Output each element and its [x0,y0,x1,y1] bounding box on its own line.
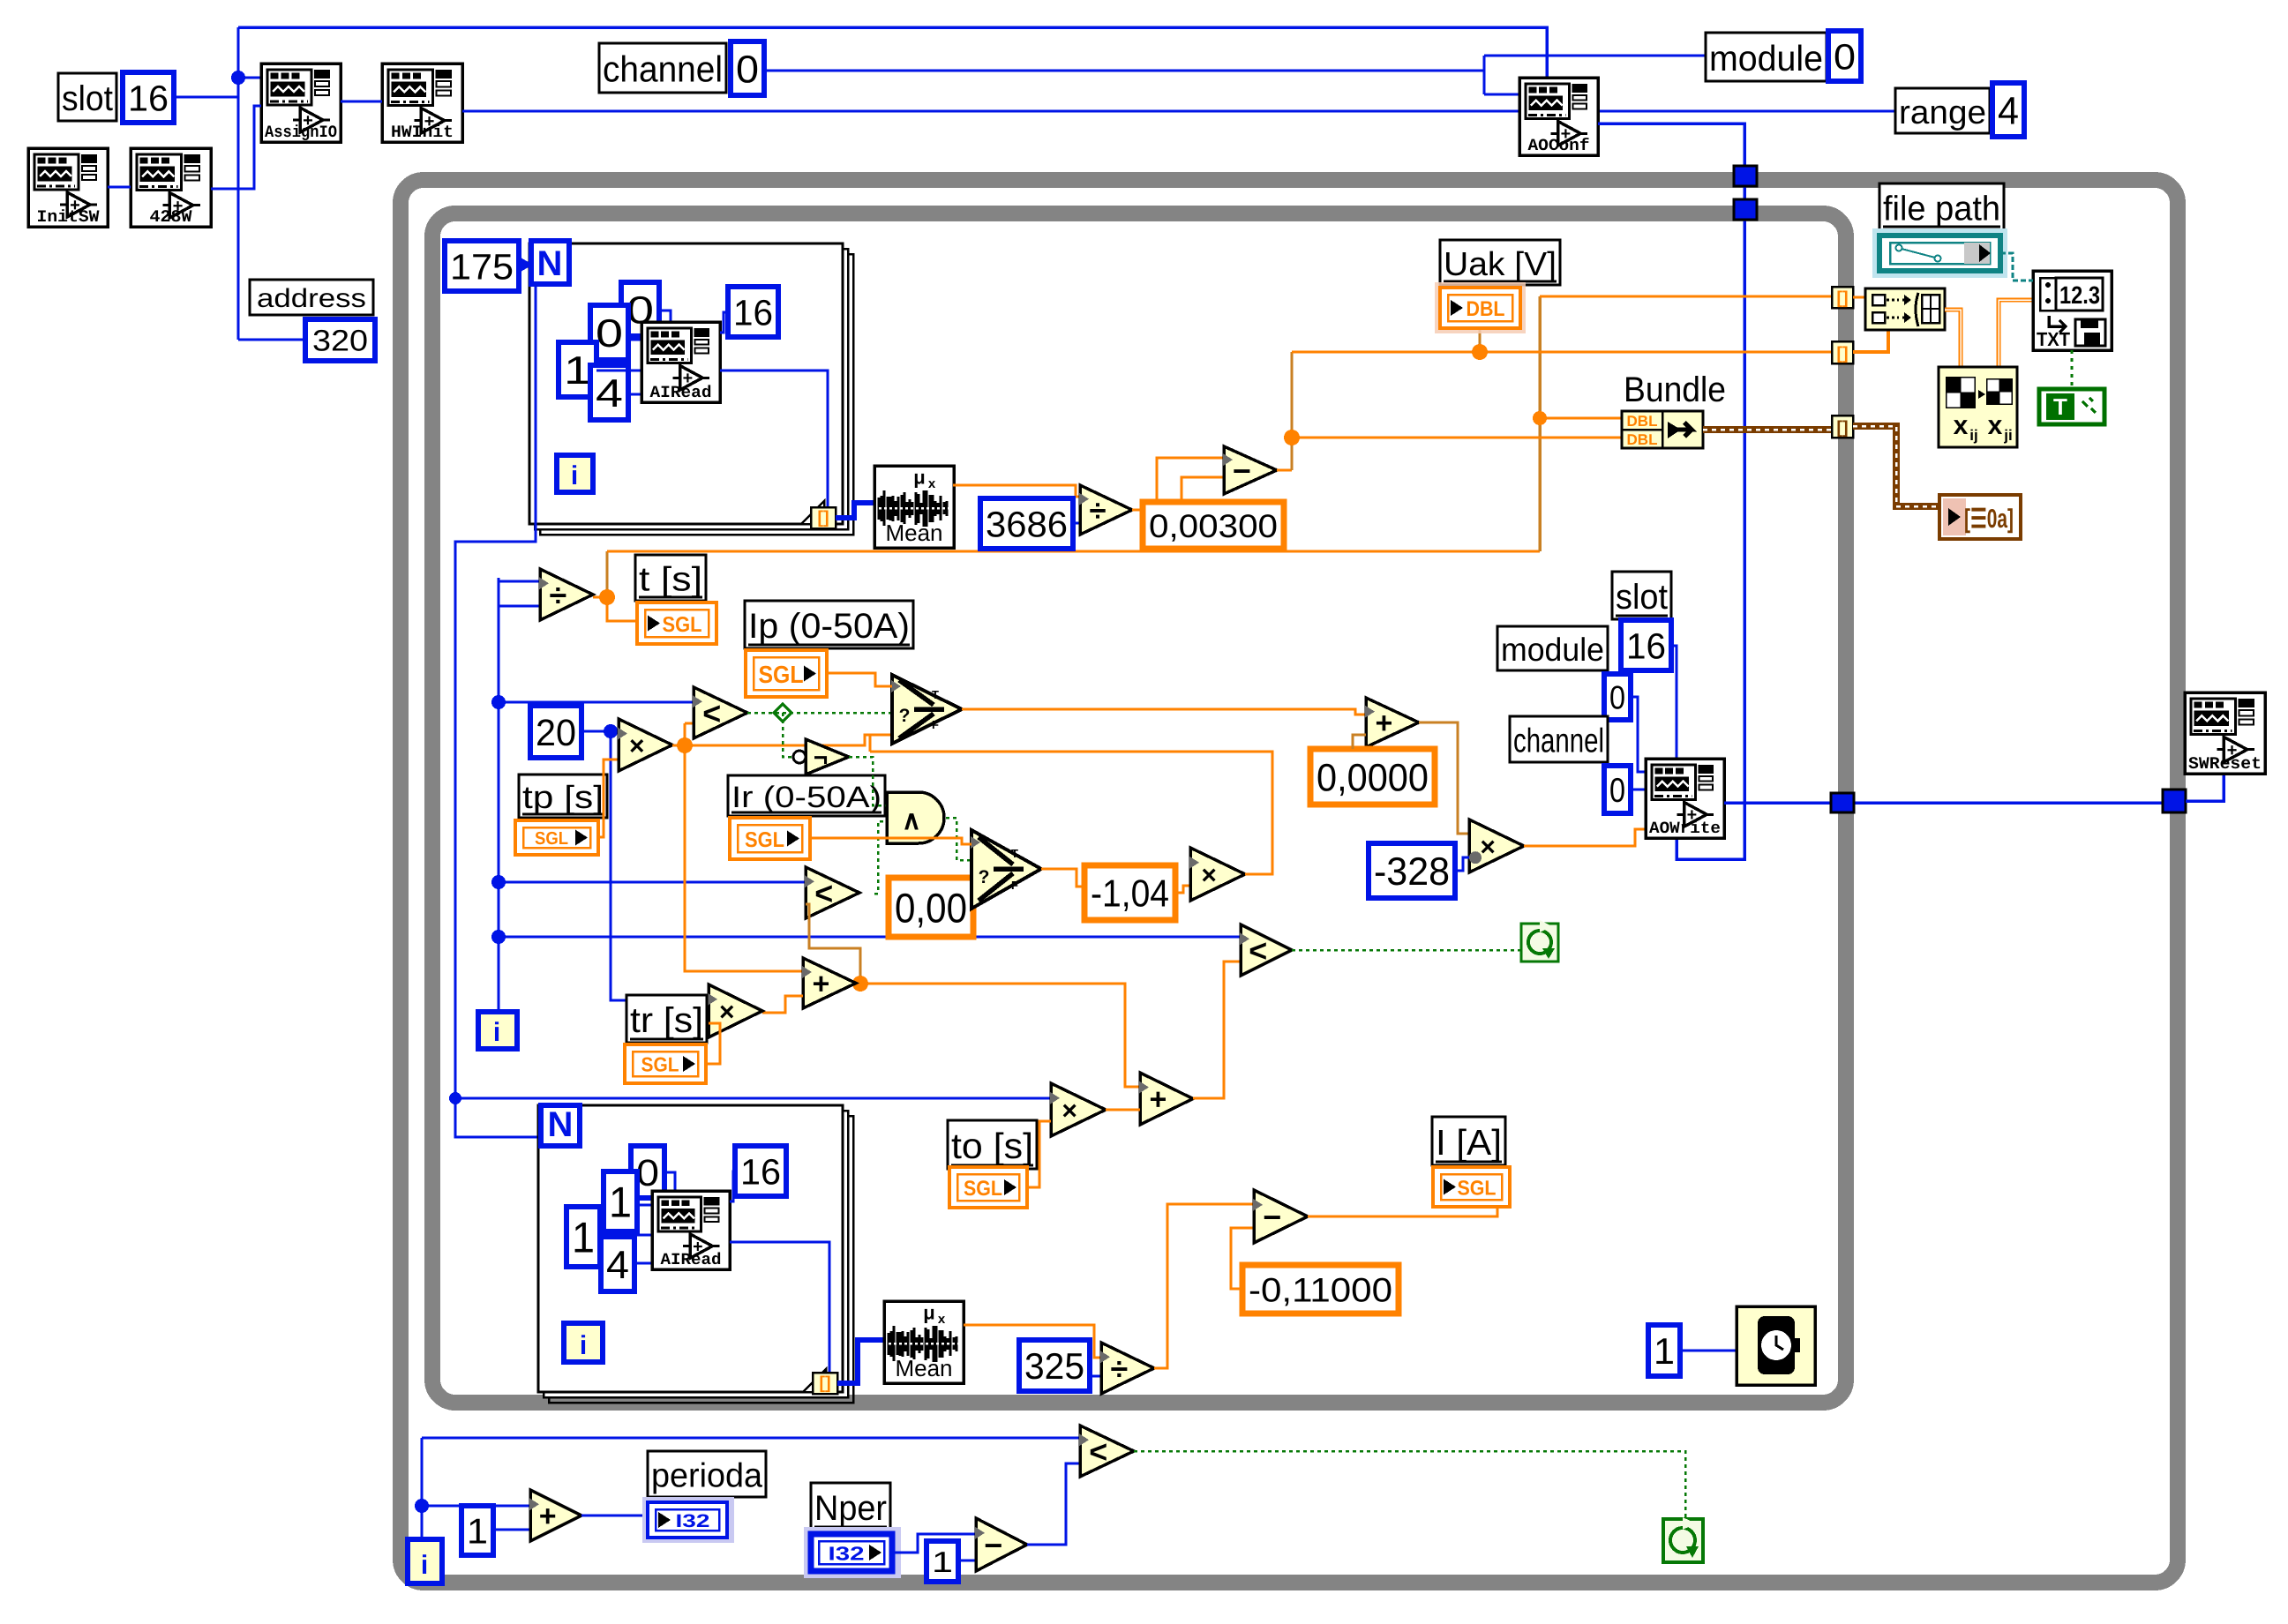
svg-text:N: N [548,1105,574,1144]
wire multTo to add2 [1106,1109,1140,1111]
wire 1 to sub5 [958,1560,976,1562]
constant 0 b loop1 [590,305,628,360]
for loop 2 corner fold [803,1369,826,1392]
label channel 2 [1510,716,1608,762]
wire build to transpose [1945,310,1961,367]
label channel top [599,43,726,93]
svg-text:325: 325 [1024,1345,1084,1387]
svg-text:SGL: SGL [745,828,784,852]
wire AssignIO to HWInit [341,101,382,103]
less than 3 [1241,924,1292,976]
svg-text:<: < [814,875,833,911]
constant 1 loop1 [559,342,596,397]
iteration terminal i inner loop [478,1012,517,1049]
wire AIRead2 to 16 [730,1171,735,1201]
svg-text:∧: ∧ [902,806,921,835]
multiply B [1469,819,1524,872]
label address [250,280,373,315]
svg-text:TXT: TXT [2037,328,2071,350]
junction i wire 2 [491,875,506,889]
svg-text:−: − [984,1527,1002,1563]
constant 0 channel2 [1604,766,1631,813]
wire 20 to multiply [581,730,619,733]
constant 3686 [980,498,1073,549]
svg-text:¬: ¬ [814,744,828,771]
svg-text:12.3: 12.3 [2059,281,2100,309]
for loop 1 frame [540,254,853,535]
wire add4 to perioda [581,1515,648,1517]
not gate [793,751,806,763]
constant T true [2039,389,2104,424]
for loop 1 corner fold [801,501,824,524]
wire save to T dotted [2071,350,2074,389]
junction mult20 dot [677,737,693,753]
svg-text:N: N [537,244,563,283]
svg-text:address: address [257,284,366,313]
svg-text:x: x [938,1312,946,1327]
bundle node [1622,411,1703,448]
junction lt1 diamond [774,704,791,722]
svg-text:320: 320 [312,325,368,358]
svg-text:[]: [] [1836,418,1848,438]
svg-text:Nper: Nper [814,1489,887,1528]
wire tunnel2 to build [1853,325,1888,352]
count terminal N loop2 [541,1105,580,1146]
wire loop2 to Mean2 [837,1340,884,1383]
constant 4 range [1992,83,2024,137]
svg-text:<: < [702,695,721,731]
wire t net [593,596,607,599]
terminal Ip SGL [746,650,827,697]
wire tunnel1 to build [1853,296,1865,299]
wire Ir to select2 [810,838,971,844]
svg-text:DBL: DBL [1627,431,1658,448]
wires consts to AIRead loop1 [659,311,671,323]
VI AOWrite [1646,759,1724,838]
constant 0 a loop1 [621,282,659,336]
multiply A [1190,848,1245,901]
junction N wire [449,1092,461,1104]
indicator 0,00300 [1143,502,1284,549]
multiply tr [709,984,762,1037]
svg-text:file path: file path [1883,189,2000,228]
subtract 5 [976,1518,1027,1571]
constant -328 [1369,843,1455,898]
wire AOConf down to AOWrite [1598,123,1744,859]
svg-text:×: × [719,998,735,1027]
svg-text:perioda: perioda [651,1457,763,1495]
svg-text:channel: channel [603,49,723,90]
tunnel orange 1 [1832,287,1853,308]
wire AOWrite out [1724,801,2163,805]
svg-text:module: module [1709,38,1823,79]
junction 20 dot [604,724,618,738]
wire transpose to save [1999,300,2033,367]
svg-text:to [s]: to [s] [951,1126,1033,1166]
label range [1895,88,1990,133]
transpose node [1939,367,2017,447]
count terminal N loop1 [531,241,569,284]
svg-text:I32: I32 [829,1542,865,1564]
wire multA out up [870,752,1272,874]
wire module0 to AOWrite [1631,697,1646,772]
label tp [519,775,607,818]
svg-text:4: 4 [1998,89,2019,132]
wire 175 to N [519,263,531,266]
svg-text:SGL: SGL [535,829,568,849]
wire multB to AOWrite [1524,829,1646,846]
label Uak [1440,240,1560,285]
label Ip [745,601,913,648]
junction i outer dot [415,1499,429,1513]
svg-text:tr [s]: tr [s] [630,1001,703,1040]
terminal tr SGL [625,1044,706,1083]
svg-text:F: F [1011,879,1018,892]
svg-text:T: T [2053,393,2067,420]
wire lt3 to continue dotted [1292,949,1521,952]
for loop 2 frame [549,1116,853,1403]
constant 0 loop2 [631,1146,664,1198]
wire to address 320 [238,339,305,341]
svg-text:4: 4 [606,1244,629,1287]
and gate [887,792,944,843]
wire 1 to wait [1680,1350,1737,1352]
wire AIRead out loop1 [720,370,828,507]
svg-text:×: × [629,731,645,760]
wire add1 to lt2 [806,904,860,984]
tunnel cluster [1832,415,1853,438]
wire lt2 to and [874,821,887,894]
wait ms node [1737,1306,1815,1385]
continue terminal inner [1521,924,1558,962]
wire top long to AOConf [238,27,1547,78]
svg-text:Mean: Mean [895,1355,952,1381]
svg-text:slot: slot [62,79,113,118]
terminal to SGL [949,1167,1027,1208]
wire -011 to sub2 [1231,1228,1254,1289]
VI AssignIO [261,64,341,142]
subtract 1 [1224,446,1277,494]
tunnel blue inner right [1831,793,1854,812]
label tr [626,995,707,1043]
svg-text:16: 16 [1626,625,1666,666]
svg-text:1: 1 [609,1179,632,1227]
terminal t s SGL [637,602,716,644]
svg-text:-1,04: -1,04 [1091,873,1169,916]
while loop outer frame [401,180,2178,1583]
wire 3686 to divide [1073,522,1080,525]
wire slot16 to AssignIO [174,96,238,99]
wire mult20 out [672,745,685,747]
constant 325 [1019,1340,1090,1391]
svg-text:F: F [932,718,939,731]
svg-text:SGL: SGL [641,1053,679,1076]
wire to SGL to multiply [1027,1121,1051,1187]
svg-text:slot: slot [1616,578,1668,617]
svg-text:I [A]: I [A] [1436,1122,1502,1163]
label Ir [728,775,885,816]
svg-text:1: 1 [467,1511,488,1552]
constant 1 wait [1648,1325,1680,1376]
svg-text:-0,11000: -0,11000 [1249,1271,1392,1309]
tunnel blue outer top [1734,166,1757,186]
multiply 20tp [619,719,672,771]
wire 16 to AOWrite [1671,646,1677,759]
wire 1 to add4 [493,1529,530,1531]
wire stubs to subtract1 [1157,458,1224,502]
wire channel0 to AOWrite [1631,789,1646,791]
svg-text:-328: -328 [1374,850,1450,894]
tunnel blue outer right [2163,790,2186,812]
iteration terminal i loop2 [564,1323,603,1362]
build array node [1865,288,1945,330]
terminal Ir SGL [730,818,810,859]
junction i wire 3 [491,930,506,944]
wire i outer net [421,1438,424,1539]
svg-text:μ: μ [923,1301,934,1323]
svg-text:÷: ÷ [550,577,567,613]
svg-text:module: module [1501,632,1604,668]
svg-text:1: 1 [564,349,591,393]
svg-text:ji: ji [2003,427,2012,444]
svg-text:x: x [928,476,936,491]
wire InitSW to 428W [108,186,131,189]
wire multTr to add1 [762,996,803,1013]
svg-text:[]: [] [817,508,829,528]
svg-text:0: 0 [736,48,759,91]
terminal perioda I32 [642,1497,734,1543]
terminal I A SGL [1433,1167,1510,1207]
VI AIRead loop1 [641,322,720,402]
label I A [1432,1117,1505,1165]
svg-text:×: × [1061,1096,1077,1126]
wire select2 out [1041,869,1084,887]
svg-text:3686: 3686 [986,504,1068,544]
svg-text:[]: [] [819,1373,830,1393]
svg-text:0: 0 [596,312,623,355]
wire sub5 to lt4 [1027,1463,1080,1545]
wire loop1 to Mean [836,503,874,518]
junction add1 dot [852,976,868,992]
svg-text:?: ? [899,706,911,726]
svg-text:<: < [1249,932,1267,969]
svg-text:0: 0 [1609,772,1625,810]
wire not to and [849,757,887,805]
wire Nper to sub5 [892,1534,976,1553]
tunnel autoindex loop1 [811,507,836,528]
svg-text:175: 175 [450,246,514,287]
svg-text:?: ? [979,867,990,887]
svg-text:Mean: Mean [885,520,942,546]
svg-text:SWReset: SWReset [2188,754,2262,774]
constant 0 channel top [731,41,764,95]
tunnel blue inner top [1734,199,1757,220]
svg-text:+: + [812,968,829,1001]
VI Mean 1 [874,466,954,548]
svg-text:16: 16 [733,292,773,333]
svg-text:−: − [1263,1199,1281,1235]
svg-text:I32: I32 [676,1511,710,1531]
wire 428W to AssignIO [211,106,261,189]
junction sub1 dot a [1284,430,1300,445]
label module 2 [1497,626,1608,670]
label module top [1706,33,1827,81]
wire i inner vertical [498,578,500,1012]
svg-text:AIRead: AIRead [661,1251,722,1269]
svg-text:0: 0 [1609,679,1625,716]
wire add2 to lt3 [1193,962,1241,1098]
wire Mean2 out [964,1325,1101,1358]
VI Mean 2 [884,1301,964,1383]
svg-text:+: + [1149,1083,1167,1117]
svg-text:×: × [1201,861,1217,890]
constant 1 Nper [926,1541,958,1582]
svg-text:HWInit: HWInit [391,123,454,142]
add 2 [1140,1073,1193,1125]
svg-text:i: i [571,461,578,490]
svg-text:×: × [1480,833,1496,862]
svg-text:DBL: DBL [1627,413,1658,430]
tunnel autoindex loop2 [813,1373,837,1394]
constant 1 perioda [461,1506,493,1555]
junction t dot [599,589,615,605]
VI SWReset [2185,692,2265,774]
label slot [58,73,116,121]
wire file path teal [2000,253,2033,281]
constant 0 module top [1828,31,1861,81]
wires consts to AIRead loop2 [664,1172,675,1191]
svg-text:16: 16 [740,1151,781,1192]
svg-text:Ir (0-50A): Ir (0-50A) [731,781,881,814]
wire Ip to select1 [827,673,892,686]
wire AIRead to 16 [720,312,728,333]
junction i wire 1 [491,695,506,709]
svg-text:i: i [580,1331,587,1360]
constant 320 [305,319,375,361]
terminal Nper I32 [804,1527,901,1578]
svg-text:AOConf: AOConf [1528,136,1590,155]
multiply to [1051,1083,1106,1136]
svg-text:InitSW: InitSW [37,207,101,227]
wire tp to multiply [598,760,619,837]
label t s [635,555,706,601]
wire channel to AOConf and module [764,70,1484,72]
svg-text:Ip (0-50A): Ip (0-50A) [748,607,910,646]
svg-text:DBL: DBL [1467,297,1505,321]
constant 0 module2 [1604,674,1631,720]
label perioda [648,1451,766,1497]
add 4 [530,1490,581,1541]
constant 4 loop1 [590,365,628,420]
constant 20 [530,706,581,758]
svg-text:t [s]: t [s] [639,561,702,599]
constant 16 slot [123,72,174,123]
svg-text:20: 20 [536,713,576,754]
wire to SWReset [2186,774,2224,801]
wire divide2 to sub2 [1154,1204,1254,1368]
VI AIRead loop2 [652,1191,730,1269]
label file path [1879,183,2004,230]
wire N loop1 down to N loop2 [455,284,541,1137]
svg-text:T: T [1011,847,1018,860]
wire divide to 000300 [1132,509,1143,512]
wire sub2 to IA [1308,1207,1497,1216]
wire diamond to not [783,713,796,757]
svg-text:SGL: SGL [759,661,804,688]
svg-text:1: 1 [932,1546,953,1579]
svg-text:+: + [1375,707,1392,740]
svg-text:x: x [1988,411,2003,440]
label Nper [811,1483,890,1530]
svg-text:÷: ÷ [1111,1351,1129,1387]
terminal tp SGL [515,820,598,855]
svg-text:1: 1 [572,1215,595,1262]
wire lt4 to continue dotted [1134,1451,1685,1519]
select 2 [971,830,1041,909]
svg-text:channel: channel [1513,722,1604,760]
VI InitSW [28,148,108,227]
svg-text:÷: ÷ [1090,494,1106,528]
wire and to select2 [946,818,971,860]
indicator -1,04 [1084,865,1175,920]
constant 16 loop1 [728,287,778,337]
svg-text:SGL: SGL [964,1177,1002,1201]
label slot 2 [1612,572,1671,619]
svg-text:tp [s]: tp [s] [522,779,604,815]
divide t [540,569,593,620]
wire Mean1 out [953,485,1080,497]
svg-text:0: 0 [1834,36,1856,77]
VI HWInit [382,64,462,142]
svg-text:0,00300: 0,00300 [1149,507,1278,544]
tunnel orange 2 [1832,341,1853,363]
svg-text:i: i [421,1551,428,1580]
svg-text:<: < [1089,1433,1107,1470]
svg-text:Uak [V]: Uak [V] [1444,245,1557,282]
less than 2 [806,867,859,918]
svg-text:−: − [1233,453,1251,489]
svg-text:0,0000: 0,0000 [1317,756,1429,799]
svg-text:i: i [493,1018,500,1047]
indicator 0,0000 [1310,749,1435,805]
junction Uak dot [1472,344,1488,360]
wire sub1 out Uak net [1277,469,1292,472]
wire branch to multiply to-loop [455,1097,1051,1100]
wire bundle out cluster [1703,426,1832,433]
svg-text:μ: μ [913,466,925,488]
svg-text:T: T [932,688,939,701]
svg-text:SGL: SGL [663,613,702,637]
wire lt1 select dotted [747,712,892,715]
svg-text:SGL: SGL [1458,1176,1497,1199]
while loop inner frame [432,213,1846,1403]
label to [948,1120,1037,1169]
VI 428W [131,148,211,227]
constant 16 loop2 [735,1146,786,1196]
wire 00000 to add3 [1353,735,1366,749]
svg-text:4: 4 [596,372,623,415]
svg-text:AIRead: AIRead [650,383,712,402]
subtract 2 [1254,1190,1308,1243]
less than 4 [1080,1426,1134,1477]
VI AOConf [1519,78,1598,155]
iteration terminal i outer [408,1539,442,1583]
wire cluster to indicator [1853,426,1939,506]
constant 16 slot2 [1621,620,1671,670]
constant -0,11000 [1242,1265,1399,1313]
constant 1 a loop2 [604,1171,637,1231]
svg-text:428W: 428W [150,207,192,227]
